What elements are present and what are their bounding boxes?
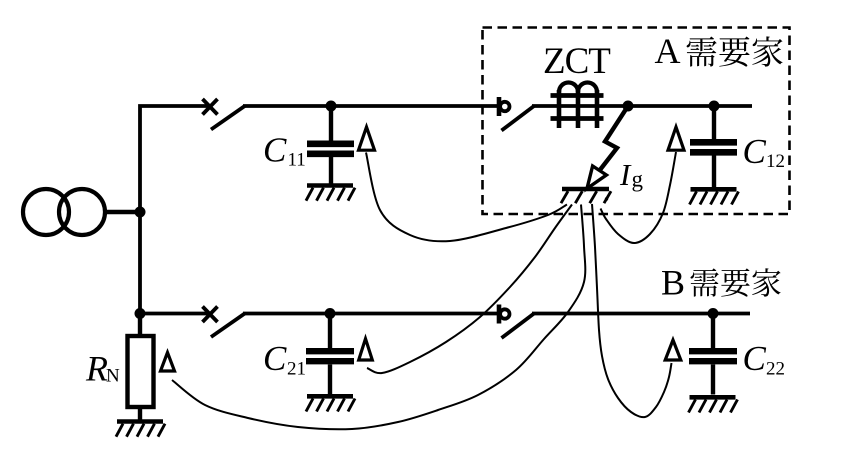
breaker CB2 contact hook	[497, 305, 502, 324]
capacitor C11	[307, 106, 354, 184]
svg-text:R: R	[85, 349, 108, 389]
arrow at C21	[359, 339, 373, 360]
svg-text:12: 12	[766, 151, 785, 172]
svg-text:C: C	[263, 131, 287, 170]
svg-text:I: I	[619, 157, 632, 192]
svg-text:21: 21	[287, 359, 306, 380]
wire top feeder left section	[243, 104, 498, 108]
current path curve to C22 arrow	[592, 204, 672, 417]
ground C12	[691, 187, 737, 192]
node C11 tap	[326, 101, 337, 112]
ground fault point	[562, 187, 609, 192]
capacitor C12	[690, 106, 737, 187]
breaker CB1 blade	[502, 106, 535, 131]
fault lightning bolt	[600, 106, 629, 171]
ground C11	[307, 183, 353, 188]
wire lower feeder mid	[243, 312, 498, 316]
current path curve to C11 arrow	[366, 153, 567, 242]
wire transformer to bus	[104, 210, 140, 215]
svg-text:ZCT: ZCT	[543, 41, 610, 82]
ZCT zero-phase CT symbol	[551, 83, 604, 129]
node C22 tap	[708, 308, 719, 319]
ground RN	[117, 419, 163, 424]
svg-text:22: 22	[766, 359, 785, 380]
wire lower feeder left	[138, 312, 211, 316]
switch S2 cross mark	[203, 307, 218, 323]
svg-text:g: g	[632, 167, 644, 192]
current path curve to C21 arrow	[367, 205, 572, 374]
svg-text:A: A	[655, 31, 681, 71]
svg-text:C: C	[743, 339, 767, 378]
svg-text:N: N	[106, 366, 120, 387]
arrow at RN	[161, 353, 175, 372]
node fault tap on top feeder	[623, 101, 634, 112]
node lower feeder junction	[135, 308, 146, 319]
node C12 tap	[709, 101, 720, 112]
arrow at C12	[668, 127, 684, 150]
ground C22	[690, 395, 736, 400]
ground C21	[307, 394, 353, 399]
capacitor C22	[689, 314, 737, 395]
svg-text:B: B	[661, 263, 685, 303]
switch S1 blade	[211, 106, 245, 130]
wire lower feeder right	[532, 312, 750, 316]
current path curve to C12 arrow	[601, 152, 677, 243]
dashed box customer A	[483, 28, 790, 215]
wire main vertical bus	[140, 106, 211, 338]
switch S2 blade	[211, 313, 245, 337]
node transformer-bus junction	[135, 207, 146, 218]
capacitor C21	[306, 314, 354, 395]
arrow at C22	[665, 340, 681, 360]
arrow at C11	[359, 127, 375, 150]
transformer T1	[23, 189, 105, 235]
svg-text:C: C	[263, 339, 287, 378]
breaker CB2 blade	[502, 314, 535, 339]
resistor RN	[138, 314, 142, 338]
switch S1 cross mark	[203, 99, 218, 115]
node C21 tap	[325, 308, 336, 319]
wire top feeder right section	[532, 104, 752, 108]
svg-text:11: 11	[288, 150, 306, 171]
svg-text:C: C	[743, 132, 767, 171]
fault arrowhead	[587, 166, 606, 189]
breaker CB1 contact hook	[497, 97, 502, 116]
current path curve to RN arrow	[172, 205, 585, 430]
